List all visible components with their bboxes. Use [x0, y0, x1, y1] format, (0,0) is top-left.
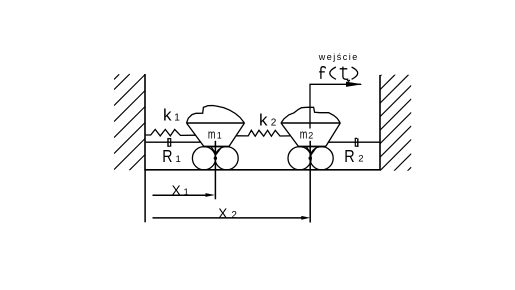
- mass m2 left slope: [281, 123, 298, 146]
- wheel m2 right: [310, 147, 333, 170]
- damper R1 piston: [167, 138, 169, 147]
- dimension line x2: [153, 217, 306, 219]
- mass m1 center line: [214, 141, 216, 200]
- svg-text:X: X: [218, 206, 227, 221]
- ground line: [145, 169, 380, 171]
- wall right face line: [379, 75, 381, 170]
- damper R2 line: [329, 141, 381, 143]
- svg-text:1: 1: [176, 154, 181, 165]
- mass m1 V seat: [211, 146, 222, 154]
- mass m1 cloud top: [187, 106, 245, 124]
- damper R1 cylinder: [169, 139, 171, 147]
- spring k1: [146, 129, 196, 136]
- wheel m2 contact dot: [309, 157, 312, 160]
- spring k2: [236, 130, 290, 136]
- input force arrowhead: [346, 82, 363, 87]
- wall left face line: [144, 74, 146, 170]
- wheel m2 left: [288, 147, 311, 170]
- dimension line x1: [153, 194, 211, 196]
- mass m2 right slope: [326, 123, 341, 146]
- svg-text:X: X: [172, 183, 181, 198]
- svg-text:R: R: [344, 146, 354, 166]
- dimension extension line left: [144, 170, 146, 222]
- svg-text:m: m: [300, 128, 308, 142]
- mass m2 cloud top: [281, 107, 340, 123]
- svg-text:2: 2: [271, 118, 277, 129]
- mass m2 bottom line: [299, 146, 327, 148]
- wall right hatching: [380, 74, 411, 171]
- wall left hatching: [114, 74, 145, 171]
- mass m1 left slope: [187, 123, 204, 146]
- mass m2 V seat: [306, 146, 317, 154]
- svg-text:1: 1: [184, 187, 189, 198]
- dimension x2 arrowhead: [301, 216, 310, 220]
- svg-text:2: 2: [358, 154, 363, 165]
- damper R1 line: [146, 141, 201, 143]
- damper R2 piston: [357, 138, 359, 147]
- svg-text:2: 2: [231, 210, 237, 221]
- mass m2 top line: [281, 122, 340, 124]
- svg-text:R: R: [162, 146, 172, 166]
- mass m2 center line: [309, 141, 311, 223]
- svg-text:m: m: [208, 128, 216, 142]
- input force line f(t): [310, 84, 361, 128]
- wheel m1 contact dot: [214, 157, 217, 160]
- mass m1 top line: [187, 122, 245, 124]
- wheel m1 right: [215, 147, 238, 170]
- damper R2 cylinder: [355, 138, 357, 146]
- mass m1 right slope: [229, 123, 245, 146]
- mass m1 bottom line: [203, 146, 230, 148]
- svg-text:1: 1: [217, 131, 222, 141]
- wheel m1 left: [192, 147, 215, 170]
- label f(t): [319, 67, 358, 82]
- svg-text:k: k: [163, 106, 172, 125]
- svg-text:1: 1: [174, 113, 180, 124]
- dimension x1 arrowhead: [206, 193, 215, 197]
- svg-text:wejście: wejście: [318, 52, 359, 62]
- svg-text:2: 2: [308, 131, 313, 141]
- svg-text:k: k: [259, 111, 268, 130]
